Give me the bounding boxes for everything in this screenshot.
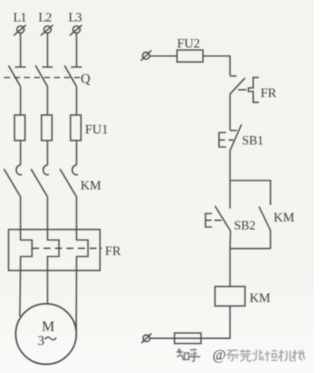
- svg-text:KM: KM: [81, 179, 102, 193]
- parallel branch bottom wire: [230, 248, 271, 250]
- wire FR to motor 1: [19, 271, 22, 317]
- wire KM contact to FR box 3: [76, 196, 78, 230]
- fuse FU1 pole 2: [42, 115, 53, 141]
- svg-text:FU2: FU2: [177, 36, 200, 51]
- wire FU2 to corner: [203, 56, 230, 76]
- char 知: [177, 349, 184, 361]
- SB2 NO pushbutton: [206, 181, 231, 249]
- svg-text:FU1: FU1: [85, 122, 108, 137]
- control terminal (bottom): [142, 334, 152, 344]
- svg-text:@: @: [213, 348, 226, 364]
- FR heater element 2: [48, 230, 60, 271]
- paper background: [0, 0, 1, 1]
- KM auxiliary NO contact: [259, 207, 271, 249]
- wire FR to motor 3: [75, 271, 77, 336]
- wire fuse to KM contact 2: [47, 141, 49, 166]
- wire switch to fuse 1: [20, 87, 22, 116]
- char 兆: [253, 350, 264, 361]
- svg-text:L1: L1: [13, 10, 26, 25]
- wire fuse to KM contact 1: [20, 141, 22, 166]
- fuse FU2: [177, 50, 203, 62]
- terminal L2: [41, 25, 53, 35]
- svg-text:FR: FR: [105, 243, 121, 258]
- wire terminal to FU2: [150, 55, 178, 57]
- char 东: [227, 350, 240, 361]
- svg-text:KM: KM: [250, 290, 271, 305]
- char 恒: [265, 351, 277, 362]
- control terminal (top): [141, 50, 152, 60]
- fuse FU1 pole 1: [15, 115, 26, 141]
- char 械: [292, 350, 305, 362]
- wire L2 to switch: [47, 33, 49, 66]
- terminal L3: [70, 25, 82, 35]
- svg-text:SB2: SB2: [234, 219, 256, 233]
- FR linkage (dashed): [32, 247, 102, 249]
- char 机: [279, 350, 293, 362]
- svg-text:L2: L2: [38, 10, 51, 25]
- svg-text:FR: FR: [261, 85, 277, 100]
- fuse FU1 pole 3: [71, 115, 82, 141]
- contactor coil KM: [215, 287, 245, 307]
- wire junction to coil: [229, 249, 231, 287]
- parallel branch top wire: [230, 181, 271, 206]
- thermal relay FR box: [9, 230, 101, 271]
- motor M circle: [16, 304, 77, 365]
- KM main contact pole 2: [31, 165, 49, 196]
- wire fuse to KM contact 3: [76, 141, 78, 166]
- char 莞: [240, 350, 251, 362]
- KM main contact pole 3: [60, 165, 78, 196]
- wire coil to bottom corner: [150, 306, 230, 338]
- switch Q pole 3: [65, 66, 82, 87]
- switch Q linkage (dashed): [4, 77, 81, 79]
- watermark 知乎 @东莞兆恒机械: [177, 349, 201, 362]
- svg-text:Q: Q: [81, 71, 91, 86]
- wire SB1 to junction: [229, 151, 231, 181]
- wire FR contact to SB1: [229, 94, 231, 130]
- svg-text:3: 3: [38, 334, 45, 349]
- wire KM contact to FR box 1: [20, 196, 22, 230]
- wire KM contact to FR box 2: [47, 196, 49, 230]
- svg-text:L3: L3: [68, 10, 81, 25]
- KM main contact pole 1: [4, 165, 22, 196]
- wire FR to motor 2: [47, 271, 49, 304]
- svg-text:KM: KM: [274, 210, 295, 225]
- FR heater element 3: [77, 230, 89, 271]
- terminal L1: [14, 25, 26, 35]
- wire switch to fuse 3: [76, 87, 78, 116]
- wire L1 to switch: [20, 33, 22, 66]
- svg-text:SB1: SB1: [242, 134, 264, 148]
- FR heater element 1: [21, 230, 33, 271]
- fuse (bottom, unlabeled): [175, 333, 202, 344]
- switch Q pole 2: [36, 66, 53, 87]
- svg-text:M: M: [42, 319, 55, 335]
- wire switch to fuse 2: [47, 87, 49, 116]
- char 乎: [189, 349, 200, 361]
- switch Q pole 1: [9, 66, 26, 87]
- wire L3 to switch: [76, 33, 78, 66]
- FR NC contact: [230, 76, 259, 102]
- SB1 NC pushbutton: [219, 125, 242, 152]
